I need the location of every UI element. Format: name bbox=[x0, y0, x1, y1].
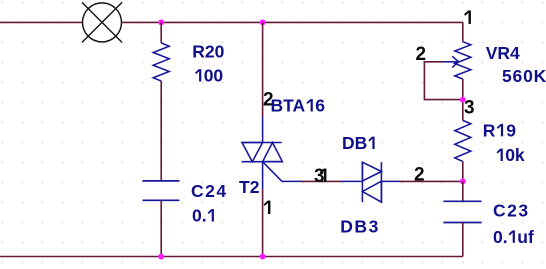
wire diac to junction bbox=[400, 180, 463, 182]
wire VR4 wiper loop bbox=[424, 62, 462, 100]
value 10k bbox=[497, 149, 502, 161]
wire R19 to junction bbox=[462, 161, 464, 181]
svg-text:00: 00 bbox=[204, 66, 224, 86]
wire C24 to bottom bbox=[160, 200, 162, 256]
svg-text:DB3: DB3 bbox=[340, 217, 380, 237]
diac DB1 bbox=[342, 162, 400, 202]
wire T2 top lead bbox=[262, 22, 264, 117]
svg-text:C24: C24 bbox=[191, 181, 228, 201]
svg-text:0k: 0k bbox=[505, 145, 525, 165]
wire T2 bottom lead bbox=[262, 189, 264, 257]
svg-text:R20: R20 bbox=[192, 42, 224, 62]
pin number 1 VR4 bbox=[465, 10, 470, 23]
wire lamp to corner bbox=[122, 21, 463, 23]
potentiometer VR4 bbox=[455, 42, 471, 79]
wire R20 to C24 bbox=[160, 81, 162, 181]
wire bottom rail bbox=[0, 256, 463, 258]
svg-text:uf: uf bbox=[517, 227, 534, 247]
wire C23 to bottom bbox=[462, 223, 464, 257]
triac T2 bbox=[242, 117, 302, 189]
wire VR4 bottom to R19 bbox=[462, 79, 464, 120]
pin number 1 DB1 bbox=[320, 169, 325, 182]
VR4 wiper arrow bbox=[443, 56, 459, 67]
node junction VR4 wiper bbox=[460, 97, 466, 103]
svg-text:VR4: VR4 bbox=[486, 43, 520, 63]
resistor R20 bbox=[153, 43, 169, 81]
node junction R19 C23 bbox=[460, 178, 466, 184]
svg-text:560K: 560K bbox=[502, 66, 546, 86]
wire R20 top lead bbox=[160, 22, 162, 43]
capacitor C23 bbox=[444, 201, 482, 222]
pin number 1 T2 bbox=[264, 201, 269, 214]
wire top-left to lamp bbox=[0, 21, 83, 23]
node junction bottom C24 bbox=[158, 254, 164, 260]
node junction top T2 bbox=[260, 19, 266, 25]
svg-text:BTA: BTA bbox=[271, 96, 306, 116]
capacitor C24 bbox=[143, 181, 180, 200]
svg-text:DB: DB bbox=[342, 133, 367, 153]
svg-text:9: 9 bbox=[506, 120, 516, 140]
svg-text:0.: 0. bbox=[493, 227, 508, 247]
svg-text:0.: 0. bbox=[192, 206, 207, 226]
svg-text:3: 3 bbox=[464, 98, 475, 119]
wire junction to C23 bbox=[462, 181, 464, 201]
svg-text:C23: C23 bbox=[493, 201, 530, 221]
node junction top R20 bbox=[158, 19, 164, 25]
svg-text:T2: T2 bbox=[239, 177, 260, 197]
node junction bottom T2 bbox=[260, 254, 266, 260]
resistor R19 bbox=[455, 120, 471, 161]
wire gate to diac bbox=[302, 180, 342, 182]
lamp bbox=[82, 2, 122, 42]
svg-text:6: 6 bbox=[315, 96, 325, 116]
wire right vertical down to VR4 bbox=[462, 22, 464, 41]
svg-text:2: 2 bbox=[414, 165, 425, 186]
svg-text:R: R bbox=[483, 120, 496, 140]
